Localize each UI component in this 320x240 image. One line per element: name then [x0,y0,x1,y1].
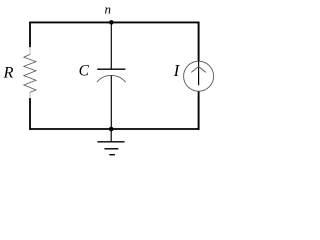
svg-text:I: I [173,61,181,80]
ground bar 3 [109,154,115,156]
ground bar 1 [97,141,124,143]
wire left upper (to resistor R) [29,22,31,48]
resistor R zigzag body [24,54,36,92]
svg-text:n: n [105,2,112,17]
wire right lower (from current source) [198,91,200,130]
svg-text:C: C [79,63,90,80]
current source I arrow shaft [198,61,200,85]
ground bar 2 [104,148,118,150]
wire right upper (to current source) [198,22,200,62]
wire top: node n rail [30,21,199,23]
ground junction dot [109,127,114,132]
current source I arrow head chevron [191,67,206,73]
wire left lower (from resistor R) [29,98,31,130]
capacitor C lead top [110,22,112,69]
capacitor C lead bottom [110,76,112,129]
ground stub [110,129,112,142]
node n junction dot [109,20,114,25]
capacitor C top plate [97,68,125,70]
current source I circle [184,61,214,91]
resistor R lead top (thin) [29,47,31,55]
capacitor C curved bottom plate [97,75,126,82]
wire bottom: ground rail [30,128,199,130]
resistor R lead bottom (thin) [29,92,31,98]
svg-text:R: R [3,63,14,82]
